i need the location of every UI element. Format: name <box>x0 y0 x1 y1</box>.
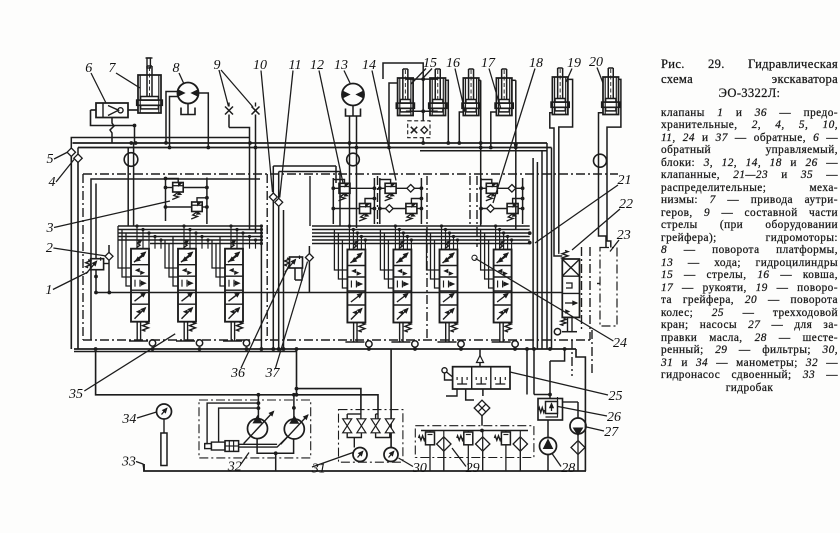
manifold gauge 31a <box>353 448 367 462</box>
spool 2 <box>393 250 411 323</box>
cylinder 17 right pipe <box>512 79 516 81</box>
valve block 3 square a <box>173 183 184 193</box>
spool 1 of block 21-23 <box>347 250 365 323</box>
svg-text:28: 28 <box>561 461 575 476</box>
gauge30 drop line <box>390 349 392 448</box>
motor 13 pipes down <box>349 116 351 228</box>
motor 8 bracket <box>181 108 195 115</box>
svg-text:19: 19 <box>567 56 581 71</box>
block separator dash-dot right <box>426 176 428 340</box>
grab rotation cylinder 19 <box>552 77 568 115</box>
svg-text:35: 35 <box>68 387 83 402</box>
bus junction dots <box>129 141 133 145</box>
relief valve 36 <box>290 257 303 268</box>
cylinder 15b right pipe <box>446 80 449 143</box>
svg-text:8: 8 <box>173 61 180 76</box>
valve 1 wiring <box>104 263 109 265</box>
svg-text:16: 16 <box>446 56 460 71</box>
wire motor8 right pipe <box>199 93 209 148</box>
svg-text:4: 4 <box>49 175 56 190</box>
valve block 12 <box>332 178 334 224</box>
pump 27 oil fill <box>570 418 586 434</box>
arm cylinder 17 <box>496 78 512 116</box>
wire valve6 bottom to bus <box>110 118 114 144</box>
pump 32 rod <box>239 443 278 445</box>
valve 25 handle <box>442 368 447 373</box>
collector line y351.5 <box>74 351 297 353</box>
left feed verticals to distribution bus <box>127 148 129 227</box>
wire motor8 left pipes <box>166 92 178 143</box>
bucket cylinder 16 <box>463 78 479 116</box>
filter drains to tank line <box>443 451 445 471</box>
wire from 9a to bus and left block <box>229 128 250 230</box>
svg-text:29: 29 <box>466 461 480 476</box>
dash-dot internal separators <box>266 174 268 340</box>
svg-text:27: 27 <box>604 425 619 440</box>
dash-dot drop lines from 22-23 to bottom units <box>581 247 583 330</box>
boom cylinder 15a <box>398 78 414 116</box>
three-way valve 25 body <box>453 367 510 389</box>
svg-text:24: 24 <box>613 336 627 351</box>
valve block 18 <box>480 178 482 224</box>
nested feed rectangles left group <box>118 226 131 268</box>
wire linking cylinders 15 <box>406 78 438 80</box>
valve 22 spring top <box>562 251 568 260</box>
svg-text:22: 22 <box>619 197 633 212</box>
valve block 3 vertical rails <box>165 178 167 222</box>
spool 3 of block 35 <box>225 249 243 322</box>
right distribution bus lines <box>312 225 530 227</box>
filter header line <box>421 430 528 432</box>
svg-text:18: 18 <box>529 56 543 71</box>
svg-text:37: 37 <box>265 366 281 381</box>
collector dots <box>94 347 98 351</box>
wires of valves 10-11 <box>272 166 274 193</box>
valve 36 wiring <box>294 268 296 280</box>
svg-text:11: 11 <box>289 58 302 73</box>
valve 22 body <box>562 259 579 317</box>
descender x283 from right bus <box>283 210 285 349</box>
wheel rotation cylinder 20 <box>603 77 619 115</box>
filter unit 1 <box>426 432 435 445</box>
spool 1 of block 35 <box>131 249 149 322</box>
svg-text:13: 13 <box>334 58 348 73</box>
spool 4 <box>494 250 512 323</box>
svg-text:14: 14 <box>362 58 376 73</box>
swivel circle on motor13 line <box>347 153 360 166</box>
spool 3 <box>440 250 458 323</box>
valve 6 stubs and loop wire <box>91 109 97 111</box>
svg-text:25: 25 <box>609 389 623 404</box>
svg-text:3: 3 <box>46 221 54 236</box>
check valve 9b (X mark) <box>255 103 257 107</box>
manifold gauge 30b <box>384 448 398 462</box>
svg-text:7: 7 <box>109 61 117 76</box>
drop lines right of spools <box>526 349 528 395</box>
boom cylinder 15b <box>430 78 446 116</box>
right spool feet <box>353 323 355 343</box>
relief valve 1 <box>91 259 104 270</box>
left group bus to spool connections <box>136 226 138 249</box>
filter block dash-dot box <box>415 426 534 458</box>
hydraulic motor 13 travel <box>342 84 364 106</box>
svg-text:30: 30 <box>412 461 427 476</box>
valve26 feed <box>549 361 551 398</box>
descender x261 from left bus <box>260 226 262 349</box>
valve 25 drain stub <box>446 389 457 396</box>
manifold 31 dash-dot box <box>339 410 403 463</box>
svg-text:21: 21 <box>618 173 632 188</box>
valve 25 outputs to filter diamond <box>466 389 474 400</box>
pump 28 gear <box>540 438 557 455</box>
svg-text:2: 2 <box>46 241 53 256</box>
valve block 14 <box>379 178 381 224</box>
platform boundary dash-dot box <box>83 173 618 175</box>
check valve 11 <box>275 198 283 206</box>
pump 32 circle B <box>284 419 304 439</box>
tank return line 33 <box>144 464 586 471</box>
valve block under 15 (dashed) <box>408 121 430 138</box>
check valve 2 <box>105 252 113 260</box>
svg-text:12: 12 <box>310 58 324 73</box>
hydraulic motor 8 platform rotation <box>178 83 199 104</box>
bridge pipe over 15a <box>383 63 423 79</box>
bus segment third <box>420 150 547 152</box>
feed branch to manifold upper <box>296 349 298 395</box>
check valve 10 <box>269 193 277 201</box>
cylinder 20 pipes down <box>599 113 607 248</box>
pump 32 internal feed wires <box>257 395 259 419</box>
wires into valve 22 <box>558 253 560 255</box>
pump feed dots <box>257 393 261 397</box>
right group enclosing box <box>309 176 311 226</box>
pump 32 circle A <box>248 419 268 439</box>
check valve 9a (X mark) <box>228 103 230 107</box>
wire from cylinder7 down <box>134 126 136 144</box>
left spool feet <box>136 322 138 341</box>
manifold wiring <box>360 410 362 419</box>
block23 stub <box>597 283 600 285</box>
right side return verticals <box>532 158 534 349</box>
valve block 3 square b <box>192 202 203 212</box>
svg-text:26: 26 <box>607 410 621 425</box>
svg-text:10: 10 <box>253 58 267 73</box>
pump 28 wiring <box>547 420 549 438</box>
filter unit 3 <box>501 432 510 445</box>
cylinder 7 outrigger drive <box>138 75 161 113</box>
swivel circle on left feed <box>124 153 138 167</box>
filter diamond under 27 <box>577 434 579 440</box>
left drop L to pump feed line <box>96 352 378 410</box>
cylinder 17 left pipe <box>491 112 497 148</box>
svg-text:33: 33 <box>121 455 136 470</box>
motor 13 bracket <box>346 109 361 117</box>
main pressure bus line lower <box>78 147 552 149</box>
wire from 9b down <box>255 115 257 234</box>
right spool comb connections <box>348 226 350 250</box>
valve 22 stem and spring <box>567 317 569 331</box>
svg-text:31: 31 <box>311 462 326 477</box>
left riser wires <box>71 138 250 149</box>
block 23 dash-dot <box>600 248 617 327</box>
pump 32 control cylinder <box>205 444 212 449</box>
main pressure bus line upper <box>73 142 548 144</box>
check valves 4 and 5 at left <box>67 148 75 156</box>
cylinder 16 right pipe <box>479 79 481 81</box>
svg-text:34: 34 <box>121 412 136 427</box>
feed vertical x515 to right bus <box>515 80 517 229</box>
cylinder 16 left pipe <box>459 112 463 143</box>
filter unit 2 <box>464 432 473 445</box>
svg-text:5: 5 <box>47 152 54 167</box>
svg-text:36: 36 <box>230 366 245 381</box>
left distribution bus lines <box>118 225 261 227</box>
valve 6 (controlled check valve) body <box>96 103 128 118</box>
valve block 26 <box>538 399 563 421</box>
collector jog to right drop <box>576 349 585 471</box>
manifold shutoff valves <box>343 419 352 426</box>
swivel circle on line 20 <box>594 154 607 167</box>
left group enclosing box <box>91 179 260 340</box>
three-way valve 25 feed arrow <box>479 349 481 367</box>
gauge 34 <box>157 404 172 419</box>
caption text column <box>661 57 838 394</box>
collector line y349 <box>74 348 576 350</box>
nested feed rectangles right group <box>334 230 347 271</box>
gauge 34 stem <box>163 419 165 433</box>
svg-text:20: 20 <box>589 55 603 70</box>
cylinder 15a left pipe <box>389 83 398 147</box>
pump 32 dash-dot box <box>199 400 311 458</box>
filter diamond below 25 <box>474 400 490 416</box>
cylinder 19 pipes down to block 21 <box>550 113 563 256</box>
check valve 37 <box>305 254 313 262</box>
svg-text:32: 32 <box>227 460 242 475</box>
pump 32 drain <box>257 439 294 454</box>
feed vertical x480 to right bus <box>480 80 482 226</box>
spool 2 of block 35 <box>178 249 196 322</box>
svg-text:1: 1 <box>45 283 52 298</box>
